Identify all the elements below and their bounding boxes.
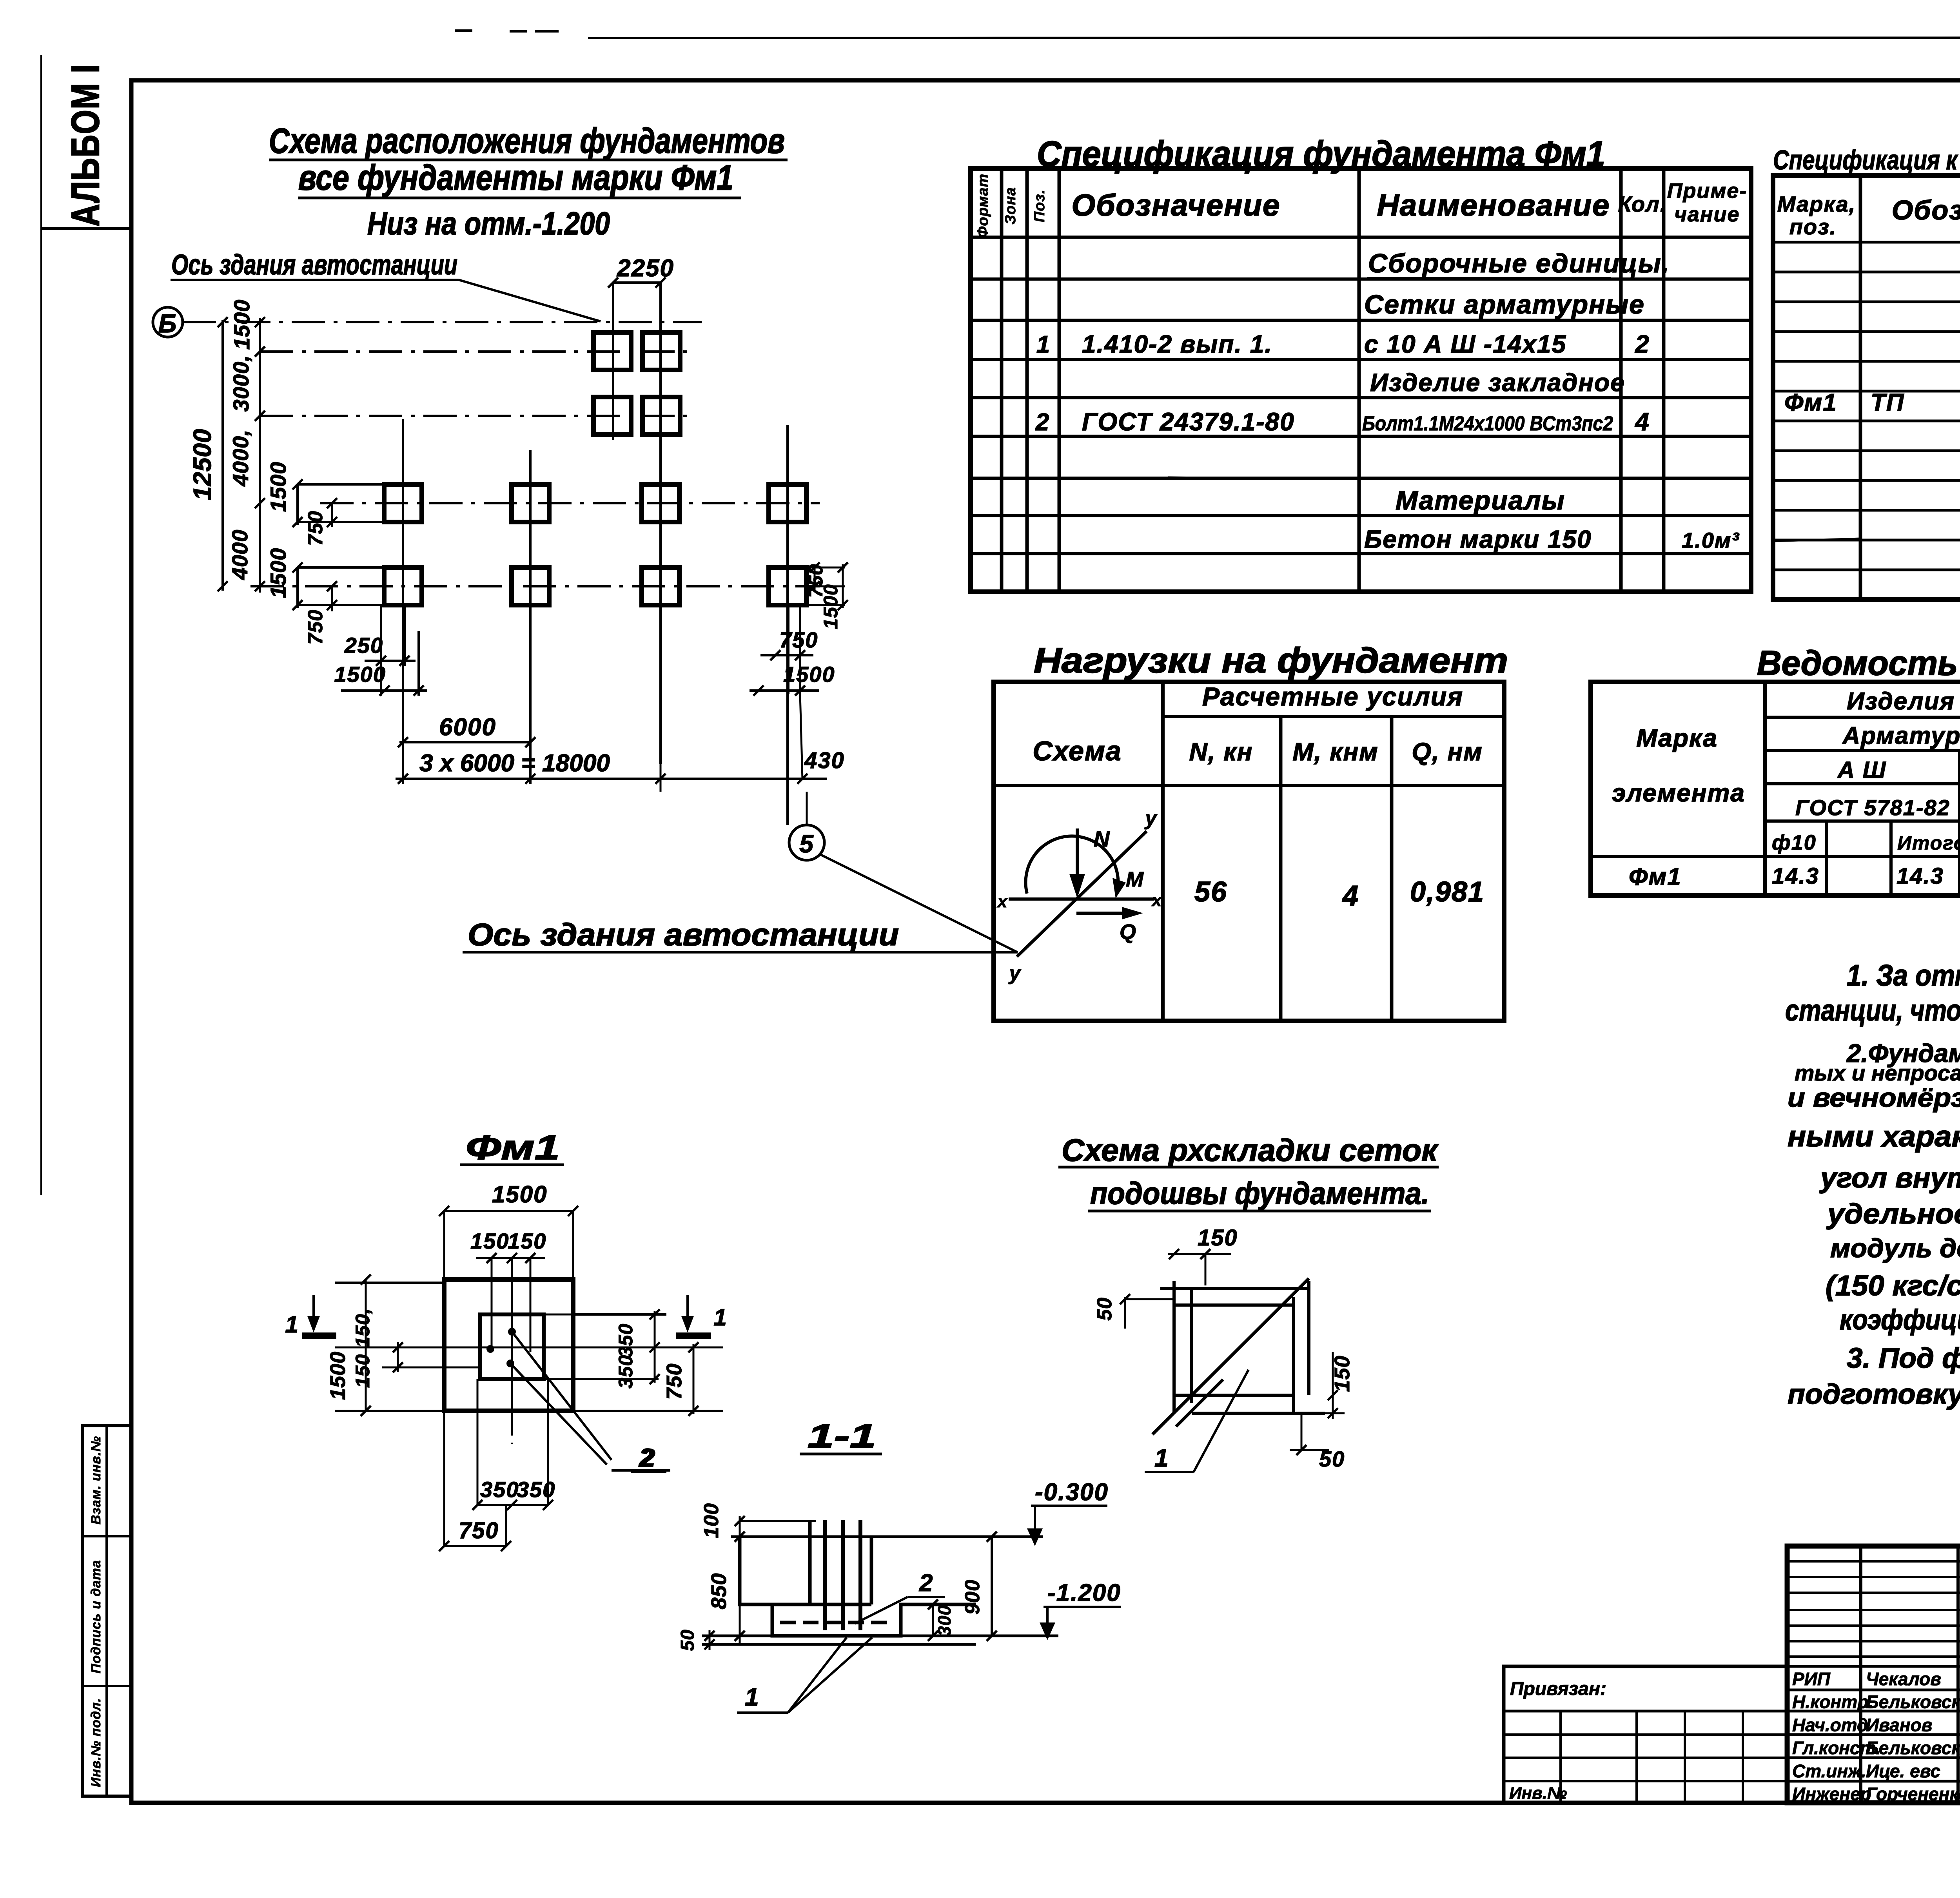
svg-text:Итого: Итого [1897, 832, 1960, 854]
row D right side dims 750/1500 [807, 567, 845, 569]
svg-text:750: 750 [459, 1518, 499, 1543]
svg-text:Фм1: Фм1 [466, 1128, 560, 1167]
overall dim 12500 [221, 320, 224, 591]
detail Fm1 inner horizontals [382, 1347, 480, 1349]
svg-text:Горчененко: Горчененко [1866, 1784, 1960, 1804]
foundation square C4 [769, 484, 806, 522]
svg-text:Зона: Зона [1002, 187, 1019, 225]
mesh detail square [1172, 1281, 1176, 1413]
foundation square D1 [384, 567, 422, 605]
svg-text:56: 56 [1194, 876, 1227, 908]
svg-text:Q: Q [1120, 920, 1137, 944]
svg-text:850: 850 [707, 1573, 731, 1609]
svg-text:150: 150 [352, 1354, 374, 1388]
axis row D [250, 585, 820, 587]
svg-text:-1.200: -1.200 [1047, 1579, 1121, 1606]
title block outer [1787, 1546, 1960, 1803]
svg-text:Обозначение: Обозначение [1892, 195, 1960, 225]
svg-text:Нагрузки на фундамент: Нагрузки на фундамент [1034, 641, 1508, 680]
svg-text:Ст.инж.: Ст.инж. [1792, 1761, 1866, 1781]
svg-text:1.410-2 вып. 1.: 1.410-2 вып. 1. [1082, 330, 1272, 358]
svg-text:ГОСТ 5781-82: ГОСТ 5781-82 [1795, 795, 1950, 820]
foundation square nav A1-1 [593, 332, 631, 370]
svg-text:150: 150 [1198, 1225, 1238, 1251]
table2 stray line [1773, 538, 1860, 541]
svg-text:Чекалов: Чекалов [1866, 1669, 1941, 1689]
svg-text:тых и непросадочных при услови: тых и непросадочных при условии отсутств… [1795, 1060, 1960, 1085]
foundation square D4 [769, 567, 806, 605]
svg-text:12500: 12500 [188, 429, 216, 500]
svg-text:ГОСТ 24379.1-80: ГОСТ 24379.1-80 [1082, 408, 1295, 436]
svg-text:3. Под фундаментами выполнит: 3. Под фундаментами выполнить щебёночную [1847, 1343, 1960, 1374]
row C left bracket dim 1500 [296, 484, 299, 525]
svg-text:N, кн: N, кн [1189, 738, 1253, 766]
svg-text:Ведомость расхода стали на э: Ведомость расхода стали на элемент, кг. [1757, 644, 1960, 682]
svg-text:у: у [1008, 962, 1022, 984]
svg-text:у: у [1144, 807, 1158, 830]
force diagram M arc [1025, 836, 1118, 894]
scan artifact: left page edge line [40, 55, 42, 1195]
svg-text:Схема рхскладки сеток: Схема рхскладки сеток [1062, 1133, 1439, 1167]
detail Fm1 left dim 1500 rotated [365, 1280, 367, 1411]
svg-text:50: 50 [677, 1629, 698, 1651]
detail Fm1 left cut mark 1 [302, 1332, 336, 1339]
svg-text:все фундаменты марки Фм1: все фундаменты марки Фм1 [298, 158, 733, 198]
svg-text:1500: 1500 [266, 462, 290, 512]
svg-text:станции, что соответствует а: станции, что соответствует абсолютной от… [1785, 994, 1960, 1027]
svg-text:-0.300: -0.300 [1035, 1479, 1109, 1506]
section right dims [991, 1537, 993, 1636]
bay dim 6000 [399, 741, 532, 743]
svg-text:ными характеристиками:: ными характеристиками: [1788, 1120, 1960, 1153]
svg-text:Изделия арматурные: Изделия арматурные [1847, 688, 1960, 715]
foundation square D2 [512, 567, 549, 605]
svg-text:1500: 1500 [334, 662, 386, 687]
svg-text:1500: 1500 [326, 1351, 350, 1400]
foundation square nav A2-1 [593, 397, 631, 435]
svg-text:2: 2 [1035, 409, 1050, 436]
force diagram Q arrow [1076, 912, 1137, 915]
svg-text:1: 1 [285, 1311, 299, 1338]
svg-text:Подпись и дата: Подпись и дата [89, 1560, 103, 1673]
svg-text:Ице. евс: Ице. евс [1866, 1761, 1940, 1781]
svg-text:6000: 6000 [439, 714, 496, 741]
svg-text:коэффициент безопасности по: коэффициент безопасности по грунту Кг=1. [1840, 1304, 1960, 1336]
canopy column line 2 [659, 283, 662, 764]
main column line D4 [786, 425, 789, 825]
svg-text:Формат: Формат [975, 174, 991, 238]
canopy column line 1 [612, 283, 614, 440]
svg-text:Иванов: Иванов [1866, 1715, 1933, 1735]
svg-text:150: 150 [508, 1229, 546, 1253]
axis row A2 [260, 415, 690, 417]
svg-text:угол внутреннего трения φн=: угол внутреннего трения φн=0,49 рад. или… [1819, 1162, 1960, 1194]
svg-text:1: 1 [745, 1683, 760, 1711]
svg-text:Инженер: Инженер [1792, 1784, 1871, 1804]
detail Fm1 left strip lines [335, 1282, 444, 1284]
canopy dim 2250 [613, 281, 661, 284]
foundation square C3 [642, 484, 679, 522]
svg-text:Низ на отм.-1.200: Низ на отм.-1.200 [367, 206, 610, 241]
svg-text:М: М [1126, 868, 1144, 891]
section rebars [823, 1520, 827, 1630]
table1 stray line [1168, 477, 1301, 479]
svg-text:х: х [1151, 891, 1162, 910]
detail Fm1 leader 2 [512, 1332, 612, 1460]
svg-text:Болт1.1М24х1000 ВСт3пс2: Болт1.1М24х1000 ВСт3пс2 [1362, 412, 1613, 435]
section mesh bars [780, 1621, 894, 1624]
svg-text:14.3: 14.3 [1896, 863, 1944, 889]
grid bubble 5 [789, 825, 824, 860]
svg-text:1500: 1500 [229, 299, 254, 350]
svg-text:1-1: 1-1 [808, 1418, 876, 1454]
svg-text:Приме-: Приме- [1667, 179, 1748, 203]
svg-text:Н.контр.: Н.контр. [1792, 1692, 1873, 1712]
svg-text:Арматура класса: Арматура класса [1842, 722, 1960, 749]
svg-text:Привязан:: Привязан: [1510, 1679, 1606, 1699]
row D left bracket dim 1500 [296, 567, 299, 608]
svg-text:150: 150 [470, 1229, 509, 1253]
svg-text:(150 кгс/см²); плотность гру: (150 кгс/см²); плотность грунта γ=1.8т/м… [1826, 1270, 1960, 1302]
detail Fm1 bolts [486, 1345, 494, 1353]
foundation square D3 [642, 567, 679, 605]
table2 grid [1773, 176, 1960, 600]
force diagram y diagonal [1017, 831, 1147, 957]
svg-text:1500: 1500 [783, 662, 835, 687]
svg-text:350: 350 [615, 1355, 637, 1389]
svg-text:Марка: Марка [1636, 724, 1718, 752]
svg-text:750: 750 [304, 511, 327, 546]
row D left dim 750 [331, 586, 333, 611]
svg-text:чание: чание [1674, 203, 1740, 226]
svg-text:350: 350 [517, 1477, 555, 1502]
svg-text:0,981: 0,981 [1410, 876, 1485, 908]
svg-text:Обозначение: Обозначение [1072, 188, 1281, 222]
title block left grid columns [1859, 1546, 1862, 1803]
detail Fm1 inner square [480, 1314, 544, 1379]
svg-text:и вечномёрзлого грунта со: и вечномёрзлого грунта со следующими нор… [1788, 1083, 1960, 1113]
svg-text:2: 2 [1635, 330, 1650, 358]
detail Fm1 left dim 150 150 rotated [397, 1342, 399, 1372]
mesh detail diagonal [1152, 1278, 1309, 1434]
svg-text:Марка,: Марка, [1777, 192, 1856, 216]
svg-text:подготовку толщиной 100.: подготовку толщиной 100. [1788, 1379, 1960, 1410]
svg-text:3 х 6000 = 18000: 3 х 6000 = 18000 [419, 750, 610, 777]
detail Fm1 right dim 750 rotated [693, 1344, 695, 1414]
row D left lower dims 250/1500 [380, 605, 382, 696]
svg-text:2: 2 [919, 1570, 933, 1597]
svg-text:Расчетные усилия: Расчетные усилия [1202, 682, 1463, 711]
table4 vertical lines [1763, 682, 1767, 896]
svg-text:2250: 2250 [617, 255, 674, 282]
title block name rows [1787, 1665, 1960, 1668]
scan artifact: top page edge line [588, 38, 1960, 38]
svg-text:Q, нм: Q, нм [1412, 738, 1483, 766]
detail Fm1 right strip lines [573, 1313, 666, 1316]
overall dim 3x6000=18000 [396, 778, 827, 780]
leader to axis label bottom [820, 854, 1018, 952]
svg-text:350: 350 [480, 1477, 519, 1502]
section pedestal outline [740, 1537, 976, 1636]
svg-text:Материалы: Материалы [1396, 486, 1565, 515]
detail Fm1 section cut line [335, 1347, 723, 1349]
svg-text:750: 750 [662, 1363, 686, 1399]
table1 grid [971, 169, 1751, 592]
row C left dim 750 [331, 503, 333, 527]
svg-text:Наименование: Наименование [1377, 188, 1610, 222]
table3 grid [994, 682, 1504, 1021]
svg-text:430: 430 [804, 748, 845, 773]
foundation square nav A2-2 [642, 397, 680, 435]
svg-text:Сборочные единицы.: Сборочные единицы. [1368, 248, 1670, 278]
svg-text:с 10 А Ш -14х15: с 10 А Ш -14х15 [1364, 330, 1566, 358]
svg-text:3000,: 3000, [229, 355, 253, 412]
main column line A [402, 419, 404, 784]
table4 grid [1591, 682, 1960, 896]
svg-text:900: 900 [961, 1579, 984, 1615]
svg-text:Нач.отд: Нач.отд [1792, 1715, 1868, 1735]
svg-text:1: 1 [1154, 1444, 1169, 1472]
axis row C [320, 502, 820, 504]
svg-text:1: 1 [1036, 331, 1051, 358]
svg-text:1500: 1500 [820, 584, 842, 629]
svg-text:Поз.: Поз. [1031, 189, 1048, 223]
svg-text:модуль деформации нескальных: модуль деформации нескальных грунтов Е= … [1830, 1233, 1960, 1263]
svg-text:Взам. инв.№: Взам. инв.№ [89, 1436, 103, 1525]
axis row A1 [260, 350, 690, 353]
section bottom prep layer [702, 1635, 1058, 1637]
axis Б dash-dot [183, 321, 702, 323]
svg-text:Инв.№ подл.: Инв.№ подл. [89, 1698, 103, 1787]
svg-text:Схема расположения фундаментов: Схема расположения фундаментов [269, 121, 785, 161]
foundation square C1 [384, 484, 422, 522]
grid bubble Б [153, 307, 183, 337]
svg-text:2: 2 [641, 1444, 656, 1472]
svg-text:Б: Б [158, 309, 178, 338]
foundation square nav A1-2 [642, 332, 680, 370]
svg-text:ТП: ТП [1871, 389, 1904, 416]
svg-text:Изделие закладное: Изделие закладное [1370, 368, 1625, 397]
svg-text:150: 150 [1330, 1355, 1354, 1392]
svg-text:Ось здания автостанции: Ось здания автостанции [171, 249, 457, 281]
svg-text:1. За отм. 0.000 принята отмет: 1. За отм. 0.000 принята отметка чистого… [1847, 959, 1960, 992]
svg-text:Сетки арматурные: Сетки арматурные [1364, 290, 1645, 319]
svg-text:Ось здания автостанции: Ось здания автостанции [468, 917, 899, 952]
svg-text:50: 50 [1093, 1297, 1116, 1321]
svg-text:АЛЬБОМ I: АЛЬБОМ I [64, 64, 107, 227]
row D right double extension [787, 605, 789, 694]
svg-text:Инв.№: Инв.№ [1509, 1784, 1567, 1803]
svg-text:А Ш: А Ш [1837, 757, 1887, 783]
svg-text:750: 750 [304, 609, 327, 645]
svg-text:Фм1: Фм1 [1629, 863, 1682, 890]
svg-text:Бельковский: Бельковский [1866, 1692, 1960, 1712]
svg-text:поз.: поз. [1789, 214, 1837, 239]
svg-text:300: 300 [934, 1605, 955, 1636]
svg-text:Кол.: Кол. [1618, 192, 1667, 216]
svg-text:250: 250 [344, 633, 383, 658]
section top surface line [731, 1535, 1043, 1538]
svg-text:100: 100 [700, 1503, 723, 1538]
svg-text:элемента: элемента [1612, 779, 1745, 807]
svg-text:М, кнм: М, кнм [1292, 738, 1378, 766]
side stamp table [82, 1426, 131, 1796]
svg-text:350: 350 [615, 1323, 637, 1357]
svg-text:Бельковский: Бельковский [1866, 1738, 1960, 1758]
force diagram N arrow [1076, 828, 1079, 878]
svg-text:Бетон марки 150: Бетон марки 150 [1364, 525, 1592, 553]
svg-text:4: 4 [1342, 880, 1359, 912]
svg-text:4: 4 [1634, 408, 1650, 436]
row D right dims 750/1500 below [760, 654, 813, 656]
svg-text:150,: 150, [352, 1308, 374, 1347]
svg-text:Схема: Схема [1033, 736, 1122, 766]
svg-text:1.0м³: 1.0м³ [1682, 528, 1740, 553]
svg-text:х: х [997, 892, 1008, 911]
svg-text:подошвы фундамента.: подошвы фундамента. [1090, 1176, 1429, 1211]
title block left grid rows (upper) [1787, 1560, 1960, 1563]
svg-text:удельное сцепление Сн=2кПа: удельное сцепление Сн=2кПа (0,02 кгс/см²… [1826, 1198, 1960, 1230]
svg-text:14.3: 14.3 [1772, 863, 1819, 889]
svg-text:1500: 1500 [492, 1181, 547, 1207]
main column line B [529, 450, 532, 784]
privyazan table [1504, 1666, 1787, 1803]
detail Fm1 right dim 350 350 rotated [654, 1311, 656, 1383]
svg-text:Спецификация к схеме расположе: Спецификация к схеме расположент фундаме… [1773, 145, 1960, 175]
detail Fm1 right cut mark 1 [676, 1332, 711, 1339]
detail Fm1 plate square [444, 1280, 573, 1411]
svg-text:РИП: РИП [1792, 1669, 1831, 1689]
force diagram x axis [1009, 897, 1154, 901]
dim chain 1500/3000/4000/4000 [259, 318, 261, 593]
svg-text:1: 1 [713, 1304, 727, 1331]
svg-text:4000,: 4000, [228, 429, 253, 486]
svg-text:1500: 1500 [266, 548, 290, 598]
foundation square C2 [512, 484, 549, 522]
svg-text:5: 5 [799, 830, 814, 858]
svg-text:ф10: ф10 [1772, 831, 1817, 854]
svg-text:4000: 4000 [227, 529, 252, 580]
svg-text:750: 750 [779, 627, 818, 652]
section dim 850 rotated [739, 1542, 741, 1644]
svg-text:Фм1: Фм1 [1784, 389, 1837, 416]
